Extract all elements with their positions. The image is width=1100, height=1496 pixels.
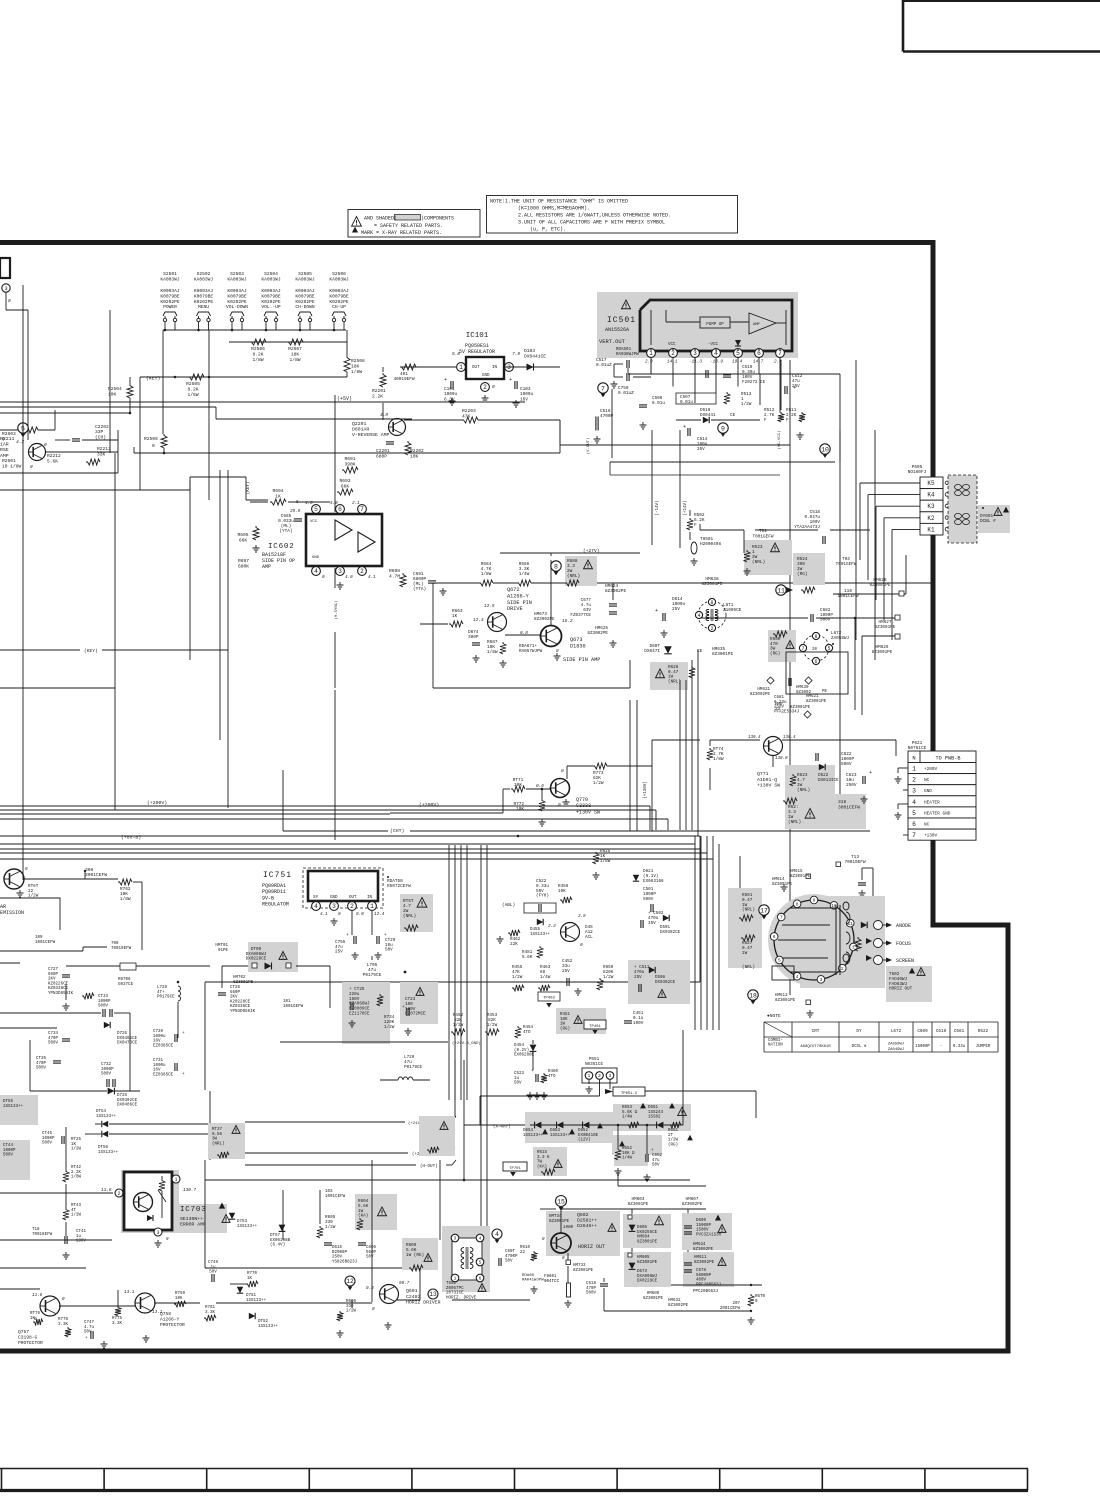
svg-text:CH-UP: CH-UP — [332, 304, 346, 310]
svg-text:8Z3001PE: 8Z3001PE — [712, 652, 733, 657]
svg-text:4.8: 4.8 — [380, 412, 388, 418]
svg-text:D455: D455 — [530, 928, 541, 932]
svg-text:HM702: HM702 — [233, 976, 246, 980]
svg-text:C678: C678 — [696, 1269, 707, 1273]
svg-text:50V: 50V — [209, 1271, 217, 1275]
svg-text:KA003WJ: KA003WJ — [227, 276, 247, 282]
svg-text:0: 0 — [372, 1307, 375, 1312]
svg-text:70019EFW: 70019EFW — [844, 860, 865, 865]
svg-text:TP651-3: TP651-3 — [621, 1092, 638, 1096]
svg-text:0.01uZ: 0.01uZ — [596, 363, 612, 368]
svg-text:Q672: Q672 — [507, 587, 519, 593]
svg-text:1SS133++: 1SS133++ — [98, 1151, 119, 1155]
svg-text:F: F — [694, 523, 697, 528]
svg-text:8.2K: 8.2K — [252, 351, 263, 357]
svg-text:K0003AJ: K0003AJ — [295, 288, 315, 294]
svg-text:K0202PE: K0202PE — [227, 299, 247, 305]
svg-text:500V: 500V — [98, 1005, 109, 1009]
svg-text:2.3: 2.3 — [548, 924, 556, 929]
svg-text:250V: 250V — [332, 1256, 343, 1260]
svg-text:KA003WJ: KA003WJ — [329, 276, 349, 282]
svg-text:(H-SYNC): (H-SYNC) — [334, 600, 339, 619]
svg-text:(K=1000 OHMS,M=MEGAOHM).: (K=1000 OHMS,M=MEGAOHM). — [518, 206, 590, 212]
svg-text:+200V: +200V — [924, 767, 938, 772]
svg-text:130.0: 130.0 — [775, 757, 788, 761]
svg-text:(NRL): (NRL) — [752, 560, 765, 565]
svg-text:8Z3002PE: 8Z3002PE — [682, 1202, 703, 1207]
svg-text:318: 318 — [838, 799, 847, 805]
svg-text:(KEY): (KEY) — [246, 482, 251, 495]
svg-text:IC602: IC602 — [268, 543, 295, 551]
svg-text:SE130N++: SE130N++ — [180, 1216, 203, 1222]
svg-text:NC: NC — [924, 823, 930, 828]
svg-text:IN: IN — [492, 366, 498, 370]
svg-text:3001CEFW: 3001CEFW — [85, 872, 107, 878]
svg-text:1AR: 1AR — [0, 442, 9, 448]
svg-text:1W (RG): 1W (RG) — [406, 1253, 424, 1258]
svg-text:OUT: OUT — [472, 366, 480, 370]
svg-text:CT35: CT35 — [36, 1057, 47, 1061]
svg-text:DX0441CE: DX0441CE — [524, 353, 546, 359]
svg-text:C734: C734 — [48, 1032, 59, 1036]
svg-text:1/5W: 1/5W — [187, 392, 198, 398]
svg-text:8Z3001PE: 8Z3001PE — [637, 1240, 658, 1244]
svg-text:HORIZ OUT: HORIZ OUT — [889, 987, 913, 992]
svg-text:C681: C681 — [954, 1029, 965, 1034]
svg-text:KA003WJ: KA003WJ — [194, 276, 214, 282]
svg-text:T18: T18 — [32, 1228, 40, 1232]
svg-text:KA003WJ: KA003WJ — [261, 276, 281, 282]
svg-text:8Z3001PE: 8Z3001PE — [790, 875, 811, 879]
svg-text:(+5V): (+5V) — [337, 396, 352, 402]
svg-text:1K: 1K — [452, 614, 458, 619]
svg-text:PQ09RD11: PQ09RD11 — [262, 889, 286, 895]
svg-text:D508: D508 — [655, 976, 666, 980]
svg-text:4TO: 4TO — [523, 1031, 531, 1035]
svg-text:(+200V): (+200V) — [147, 800, 167, 806]
svg-text:ZA059WJ: ZA059WJ — [888, 1043, 904, 1047]
svg-text:R460: R460 — [548, 1070, 559, 1074]
svg-text:2.0: 2.0 — [645, 360, 653, 365]
svg-text:(NRL): (NRL) — [797, 788, 810, 793]
svg-text:4T: 4T — [71, 1209, 77, 1213]
svg-text:HORIZ OUT: HORIZ OUT — [578, 1244, 605, 1250]
svg-text:D2581++: D2581++ — [577, 1218, 597, 1224]
svg-text:8Z3001PE: 8Z3001PE — [701, 582, 722, 587]
svg-text:10K: 10K — [514, 783, 522, 788]
svg-text:7: 7 — [801, 646, 804, 652]
svg-text:3: 3 — [156, 1230, 159, 1236]
svg-text:-13.9: -13.9 — [710, 360, 723, 365]
svg-text:HM6: HM6 — [775, 703, 783, 707]
svg-text:18K: 18K — [351, 363, 360, 369]
svg-text:D1830: D1830 — [570, 643, 586, 649]
svg-text:HM605: HM605 — [637, 1256, 650, 1260]
svg-text:8Z3001PE: 8Z3001PE — [872, 650, 893, 655]
svg-text:R2505: R2505 — [186, 381, 200, 387]
svg-text:OUT: OUT — [349, 896, 357, 900]
svg-text:(RG): (RG) — [797, 572, 808, 577]
svg-text:VCC: VCC — [310, 520, 318, 524]
svg-text:11: 11 — [847, 921, 853, 927]
svg-text:470P: 470P — [36, 1062, 47, 1066]
svg-text:0: 0 — [322, 575, 325, 580]
svg-text:20: 20 — [812, 648, 818, 652]
svg-text:1001CEFW: 1001CEFW — [325, 1195, 346, 1199]
svg-text:NC: NC — [924, 778, 930, 783]
svg-text:0.01uZ: 0.01uZ — [618, 391, 634, 396]
svg-text:0: 0 — [492, 384, 495, 390]
svg-text:50V: 50V — [514, 1082, 522, 1086]
svg-text:5.6K Ω: 5.6K Ω — [622, 1111, 638, 1115]
svg-text:R697: R697 — [238, 558, 249, 564]
svg-text:40019EFW: 40019EFW — [393, 377, 414, 382]
svg-text:EX063166: EX063166 — [643, 879, 664, 884]
svg-text:1/2W: 1/2W — [741, 402, 752, 407]
svg-text:IC703: IC703 — [180, 1206, 207, 1214]
svg-text:3.3K: 3.3K — [58, 1323, 69, 1327]
svg-text:3: 3 — [332, 903, 336, 910]
svg-text:3.3K: 3.3K — [112, 1322, 123, 1326]
svg-text:400V: 400V — [696, 1279, 707, 1283]
svg-text:(KEY): (KEY) — [146, 376, 161, 382]
svg-text:KZ0338CE: KZ0338CE — [48, 987, 69, 991]
svg-text:8Z3001PE: 8Z3001PE — [775, 999, 796, 1003]
svg-text:10 1/8W: 10 1/8W — [2, 463, 22, 469]
svg-text:25V: 25V — [335, 950, 343, 955]
svg-text:1: 1 — [370, 903, 374, 910]
svg-text:K5: K5 — [927, 480, 935, 487]
svg-text:4.7M: 4.7M — [389, 573, 400, 579]
svg-text:2.ALL RESISTORS ARE 1/6WATT,UN: 2.ALL RESISTORS ARE 1/6WATT,UNLESS OTHER… — [518, 213, 671, 219]
svg-text:3: 3 — [4, 285, 7, 292]
svg-text:+: + — [683, 424, 686, 430]
svg-text:D615: D615 — [332, 1246, 343, 1250]
svg-text:Q2201: Q2201 — [352, 421, 367, 427]
svg-text:C652: C652 — [652, 1154, 663, 1158]
svg-text:500V: 500V — [36, 1067, 47, 1071]
svg-text:AN15526A: AN15526A — [605, 327, 629, 333]
svg-text:6: 6 — [757, 350, 761, 357]
svg-text:3.UNIT OF ALL CAPACITORS ARE F: 3.UNIT OF ALL CAPACITORS ARE F WITH PREF… — [518, 220, 665, 226]
svg-text:IC501: IC501 — [607, 316, 636, 325]
svg-text:R2507: R2507 — [288, 346, 302, 352]
svg-text:680K: 680K — [238, 563, 249, 569]
svg-text:1001GEFW: 1001GEFW — [283, 1005, 304, 1009]
svg-text:HM630: HM630 — [796, 686, 809, 690]
svg-text:2.1: 2.1 — [352, 501, 360, 506]
svg-text:19.4: 19.4 — [732, 360, 743, 365]
svg-text:5: 5 — [314, 506, 318, 513]
svg-text:+: + — [651, 1148, 654, 1153]
svg-text:6: 6 — [773, 934, 776, 940]
svg-text:1SS133++: 1SS133++ — [530, 933, 551, 937]
svg-text:1/2W: 1/2W — [325, 1225, 336, 1230]
svg-text:0: 0 — [580, 943, 583, 948]
svg-text:1: 1 — [649, 350, 653, 357]
svg-text:(+130V): (+130V) — [643, 781, 648, 799]
svg-text:+: + — [182, 1031, 185, 1036]
svg-text:K0202PE: K0202PE — [329, 299, 349, 305]
svg-text:C523: C523 — [514, 1072, 525, 1076]
svg-text:C606: C606 — [366, 1246, 377, 1250]
svg-text:K0003AJ: K0003AJ — [194, 288, 214, 294]
svg-text:N0761CE: N0761CE — [908, 746, 927, 751]
svg-text:F20272 CE: F20272 CE — [742, 380, 766, 385]
svg-text:Z1005CE: Z1005CE — [723, 608, 742, 613]
svg-text:S2504: S2504 — [264, 271, 278, 277]
svg-text:25V: 25V — [634, 975, 642, 980]
svg-text:C731: C731 — [153, 1059, 164, 1063]
svg-text:DX013ICE: DX013ICE — [818, 778, 839, 783]
svg-text:R759: R759 — [175, 1292, 186, 1296]
svg-text:50V: 50V — [385, 948, 393, 953]
svg-text:50V: 50V — [366, 1256, 374, 1260]
svg-text:10K: 10K — [560, 1018, 568, 1022]
svg-text:16V: 16V — [153, 1069, 161, 1073]
svg-text:8Z3002PE: 8Z3002PE — [605, 589, 626, 594]
svg-text:2: 2 — [117, 1191, 120, 1197]
svg-text:RT76: RT76 — [30, 1312, 41, 1316]
svg-text:66K: 66K — [239, 537, 248, 543]
svg-text:DX0406CE: DX0406CE — [117, 1104, 138, 1108]
svg-text:390P: 390P — [468, 635, 479, 640]
svg-text:F: F — [786, 418, 789, 423]
svg-text:K20228CE: K20228CE — [230, 1000, 251, 1004]
svg-text:25V: 25V — [562, 969, 570, 974]
svg-text:DCSL ⊕: DCSL ⊕ — [852, 1044, 867, 1049]
svg-text:K0079BE: K0079BE — [295, 293, 315, 299]
svg-text:R778: R778 — [58, 1318, 69, 1322]
svg-text:)COMPONENTS: )COMPONENTS — [421, 216, 454, 222]
svg-text:5.6K: 5.6K — [522, 955, 533, 960]
svg-text:2: 2 — [841, 966, 844, 972]
svg-text:3: 3 — [338, 568, 342, 575]
svg-text:R2211: R2211 — [0, 436, 15, 442]
svg-text:(RG): (RG) — [770, 651, 780, 656]
svg-text:R693: R693 — [339, 478, 350, 484]
svg-text:4: 4 — [479, 1236, 482, 1242]
svg-text:YPN3D656IK: YPN3D656IK — [48, 992, 74, 996]
svg-text:+: + — [85, 1336, 88, 1341]
svg-text:C60T: C60T — [505, 1250, 516, 1254]
svg-text:+: + — [869, 770, 872, 776]
svg-text:(NRL): (NRL) — [212, 1141, 225, 1146]
svg-text:(+200V): (+200V) — [419, 802, 439, 808]
svg-text:DX0302CE: DX0302CE — [117, 1099, 138, 1103]
svg-text:708: 708 — [111, 942, 119, 946]
svg-text:(YC-VCC): (YC-VCC) — [777, 430, 782, 449]
svg-text:101: 101 — [283, 1000, 291, 1004]
svg-text:C2202: C2202 — [95, 424, 109, 430]
svg-text:D653: D653 — [550, 1129, 561, 1133]
svg-text:0: 0 — [152, 443, 155, 449]
svg-text:5V REGULATOR: 5V REGULATOR — [459, 349, 495, 355]
svg-text:7: 7 — [780, 915, 783, 921]
svg-text:K0003AJ: K0003AJ — [227, 288, 247, 294]
svg-text:R615: R615 — [537, 1151, 548, 1155]
svg-text:D751: D751 — [246, 1294, 257, 1298]
svg-text:4: 4 — [796, 974, 799, 980]
svg-text:28.9: 28.9 — [290, 509, 301, 514]
svg-text:V-REVERSE AMP: V-REVERSE AMP — [352, 432, 390, 438]
svg-text:D501: D501 — [660, 926, 671, 930]
svg-text:5: 5 — [827, 646, 830, 652]
svg-text:1/2W: 1/2W — [603, 975, 614, 980]
svg-text:8Z3001PE: 8Z3001PE — [869, 583, 890, 588]
svg-text:1K: 1K — [247, 1277, 253, 1281]
svg-text:DX0255CE: DX0255CE — [637, 1231, 658, 1235]
svg-text:1000P: 1000P — [42, 1137, 55, 1141]
svg-text:4.1: 4.1 — [320, 912, 328, 917]
svg-text:R451: R451 — [560, 1013, 571, 1017]
svg-text:TP701: TP701 — [509, 1167, 521, 1171]
svg-text:500V: 500V — [643, 897, 654, 902]
svg-text:1/8W: 1/8W — [120, 897, 131, 902]
svg-text:D103: D103 — [524, 348, 535, 354]
svg-text:130.7: 130.7 — [183, 1188, 197, 1193]
svg-text:R606: R606 — [346, 1300, 357, 1304]
svg-text:(X-RAY): (X-RAY) — [493, 1125, 511, 1130]
svg-text:RT43: RT43 — [71, 1204, 82, 1208]
svg-text:ZA058WJ: ZA058WJ — [831, 636, 849, 641]
svg-text:PROTECTOR: PROTECTOR — [18, 1340, 43, 1346]
svg-text:12.3: 12.3 — [473, 618, 484, 623]
svg-text:1000u: 1000u — [153, 1064, 166, 1068]
svg-text:C2482: C2482 — [406, 1294, 421, 1300]
svg-text:1: 1 — [912, 766, 916, 773]
svg-text:6: 6 — [338, 506, 342, 513]
svg-text:CT26: CT26 — [230, 986, 241, 990]
svg-text:(NRL): (NRL) — [742, 908, 755, 913]
svg-text:+: + — [346, 933, 349, 938]
svg-text:S2501: S2501 — [163, 271, 177, 277]
svg-text:HM631: HM631 — [757, 688, 770, 692]
svg-text:13: 13 — [429, 1291, 437, 1298]
svg-text:K2: K2 — [927, 515, 935, 522]
svg-text:K3: K3 — [927, 503, 935, 510]
svg-text:8: 8 — [796, 901, 799, 907]
svg-text:PQ050ES1: PQ050ES1 — [465, 343, 489, 349]
svg-text:C609: C609 — [917, 1029, 928, 1034]
svg-text:1W: 1W — [560, 1023, 566, 1027]
svg-text:+: + — [531, 1069, 534, 1074]
svg-text:66K: 66K — [341, 483, 350, 489]
svg-text:680P: 680P — [376, 453, 387, 459]
svg-text:S2506: S2506 — [332, 271, 346, 277]
svg-text:HM615: HM615 — [790, 870, 803, 874]
svg-text:1/2W: 1/2W — [668, 1138, 679, 1143]
svg-text:470P: 470P — [48, 1037, 59, 1041]
svg-text:(u, P, ETC).: (u, P, ETC). — [530, 227, 566, 233]
svg-text:TO PWB-B: TO PWB-B — [936, 756, 961, 762]
svg-text:70018EFW: 70018EFW — [32, 1233, 53, 1237]
svg-text:(H-OUT): (H-OUT) — [420, 1164, 438, 1169]
svg-text:1W: 1W — [742, 951, 748, 956]
svg-text:2.8: 2.8 — [578, 914, 586, 919]
svg-text:0.01u: 0.01u — [652, 401, 665, 406]
svg-text:5: 5 — [778, 958, 781, 964]
svg-text:18: 18 — [749, 992, 757, 999]
svg-text:4.0: 4.0 — [345, 575, 353, 580]
svg-text:ACL: ACL — [585, 935, 593, 940]
svg-text:0: 0 — [338, 912, 341, 917]
svg-text:8Z3001PE: 8Z3001PE — [549, 1220, 570, 1224]
svg-text:15.2: 15.2 — [562, 619, 573, 624]
svg-text:2: 2 — [350, 903, 354, 910]
svg-text:1/8W: 1/8W — [600, 859, 611, 864]
svg-text:EZ1170CE: EZ1170CE — [349, 1012, 370, 1017]
svg-text:NATION: NATION — [768, 1044, 783, 1048]
svg-text:KA003WJ: KA003WJ — [160, 276, 180, 282]
svg-text:390K: 390K — [344, 461, 355, 467]
svg-text:1SS244: 1SS244 — [648, 1111, 664, 1115]
svg-text:2T: 2T — [668, 1134, 674, 1138]
svg-text:PUMP UP: PUMP UP — [706, 323, 724, 327]
svg-text:R775: R775 — [112, 1317, 123, 1321]
svg-text:50V: 50V — [652, 1164, 660, 1168]
svg-text:250V: 250V — [846, 783, 857, 788]
svg-text:= SAFETY RELATED PARTS.: = SAFETY RELATED PARTS. — [374, 223, 443, 229]
svg-text:10K Ω: 10K Ω — [622, 1152, 635, 1156]
svg-text:4: 4 — [314, 903, 318, 910]
svg-text:9V-B: 9V-B — [262, 895, 274, 901]
svg-text:DT55: DT55 — [3, 1100, 14, 1104]
svg-text:0.01u: 0.01u — [680, 400, 693, 405]
svg-text:D601AR: D601AR — [352, 427, 369, 433]
svg-text:K0079BE: K0079BE — [227, 293, 247, 299]
svg-text:H2000496: H2000496 — [700, 542, 721, 547]
svg-text:2KV: 2KV — [230, 996, 238, 1000]
svg-text:50V: 50V — [505, 1260, 513, 1264]
svg-text:103: 103 — [325, 1190, 333, 1194]
svg-text:MENU: MENU — [198, 304, 209, 310]
svg-text:4: 4 — [495, 1231, 499, 1238]
svg-text:(12V): (12V) — [578, 1138, 591, 1143]
svg-text:DX0473CE: DX0473CE — [117, 1042, 138, 1046]
svg-text:EZ0385CE: EZ0385CE — [153, 1073, 174, 1077]
svg-text:RSE: RSE — [0, 447, 9, 453]
svg-text:NO160FJ: NO160FJ — [908, 470, 927, 475]
svg-text:8.2K: 8.2K — [187, 386, 198, 392]
svg-text:HEATER GND: HEATER GND — [924, 811, 951, 816]
svg-text:F: F — [764, 418, 767, 423]
svg-text:1/4W: 1/4W — [519, 572, 530, 577]
svg-text:4: 4 — [912, 799, 916, 806]
svg-text:R2202: R2202 — [410, 448, 424, 454]
svg-text:15: 15 — [557, 1198, 565, 1205]
svg-text:1SS133++: 1SS133++ — [3, 1105, 24, 1109]
svg-text:5: 5 — [479, 1260, 482, 1266]
svg-text:18K: 18K — [291, 351, 300, 357]
svg-text:11.6: 11.6 — [32, 1293, 43, 1298]
svg-text:DT56: DT56 — [98, 1146, 109, 1150]
svg-text:1000u: 1000u — [153, 1035, 166, 1039]
svg-text:1/8W: 1/8W — [713, 757, 724, 762]
svg-text:100V: 100V — [633, 1021, 644, 1026]
svg-text:L672: L672 — [891, 1029, 902, 1034]
svg-text:6: 6 — [912, 821, 916, 828]
svg-text:1001CEFW: 1001CEFW — [35, 941, 56, 945]
svg-text:8Z3002PE: 8Z3002PE — [694, 1261, 715, 1265]
svg-text:RA038WJPW: RA038WJPW — [616, 353, 639, 357]
svg-text:13.1: 13.1 — [124, 1290, 135, 1295]
svg-text:PROTECTOR: PROTECTOR — [160, 1322, 185, 1328]
svg-text:R622: R622 — [978, 1029, 989, 1034]
svg-text:D673: D673 — [637, 1270, 648, 1274]
svg-text:ANODE: ANODE — [896, 923, 911, 929]
svg-text:EX06288E: EX06288E — [514, 1054, 535, 1058]
